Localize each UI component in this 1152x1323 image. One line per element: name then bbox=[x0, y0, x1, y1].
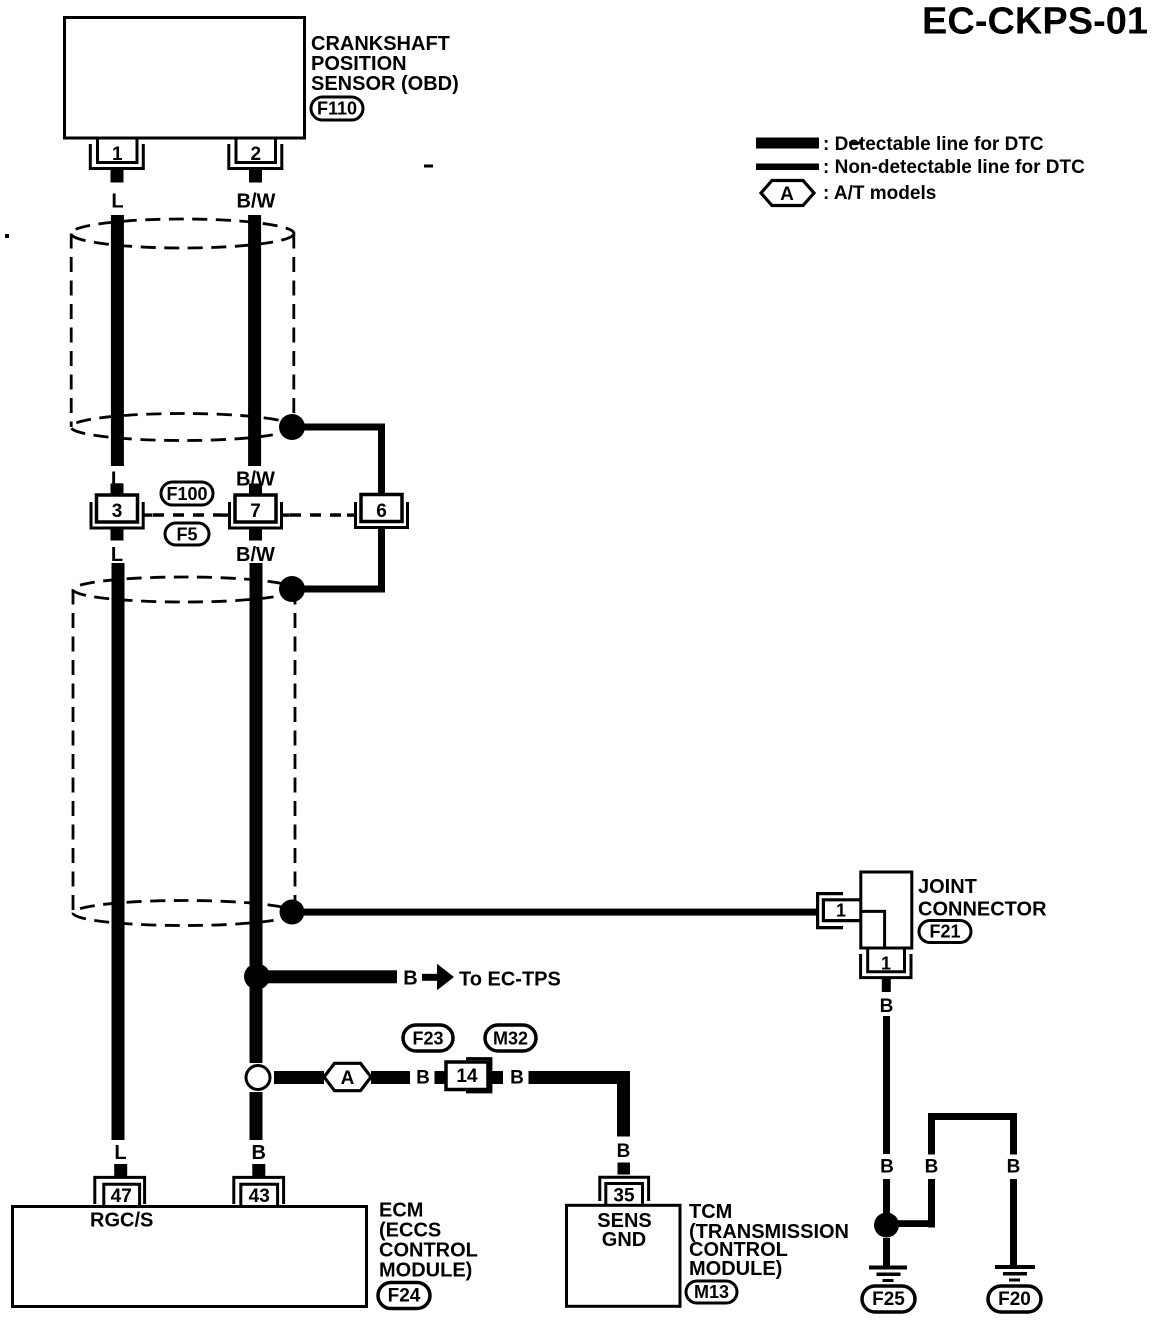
connector 7 bbox=[221, 484, 290, 541]
svg-text:: A/T models: : A/T models bbox=[823, 183, 936, 204]
svg-text:F20: F20 bbox=[998, 1289, 1031, 1310]
label B/W below connector 7 bbox=[236, 544, 275, 566]
wire joint connector down lower bbox=[883, 1179, 890, 1214]
svg-text:To EC-TPS: To EC-TPS bbox=[459, 969, 561, 991]
svg-text:1: 1 bbox=[836, 901, 846, 921]
module ECM box bbox=[13, 1207, 367, 1307]
label L below connector 3 bbox=[111, 544, 123, 566]
label B/W top bbox=[237, 191, 276, 213]
pin 1 of sensor bbox=[90, 138, 143, 183]
wire connector 14 to label B bbox=[488, 1071, 503, 1084]
wire to EC-TPS bbox=[264, 970, 397, 983]
label B/W above connector 7 bbox=[236, 469, 275, 491]
pin 43 of ECM bbox=[234, 1164, 284, 1207]
label B EC-TPS bbox=[403, 968, 417, 990]
speck dash below title bbox=[849, 142, 863, 145]
svg-text:L: L bbox=[111, 544, 123, 566]
svg-text:F24: F24 bbox=[388, 1286, 421, 1307]
connector F20 oval bbox=[988, 1286, 1041, 1312]
svg-text:6: 6 bbox=[376, 501, 387, 522]
wire B/W above pin 43 bbox=[250, 1092, 263, 1140]
svg-text:B: B bbox=[880, 996, 894, 1017]
svg-text:B: B bbox=[1007, 1157, 1021, 1178]
svg-text:B/W: B/W bbox=[237, 191, 276, 213]
wire B to TCM corner bbox=[529, 1071, 631, 1137]
shield cylinder 1 (dashed) bbox=[71, 219, 294, 441]
wire circle to hexagon bbox=[274, 1071, 324, 1084]
connector F23 oval bbox=[403, 1025, 453, 1051]
label B bridge right bbox=[1007, 1157, 1021, 1178]
dashed link 3 to 7 bbox=[153, 513, 221, 516]
wire bridge right lower bbox=[1010, 1179, 1017, 1266]
svg-text:JOINT: JOINT bbox=[918, 876, 977, 898]
legend non-detectable line for DTC bbox=[756, 157, 1085, 178]
arrow to EC-TPS bbox=[422, 964, 454, 990]
svg-text:CONTROL: CONTROL bbox=[379, 1240, 478, 1262]
ground symbol F25 bbox=[869, 1266, 907, 1283]
junction dot ground bbox=[874, 1213, 899, 1238]
svg-text:1: 1 bbox=[881, 954, 891, 974]
wire B/W upper segment bbox=[248, 215, 261, 466]
svg-text:L: L bbox=[114, 1142, 126, 1164]
svg-text:F5: F5 bbox=[176, 525, 197, 545]
svg-text:1: 1 bbox=[112, 144, 123, 165]
label B above pin 43 bbox=[251, 1142, 265, 1164]
label RGC/S bbox=[90, 1210, 153, 1232]
connector M32 oval bbox=[485, 1025, 536, 1051]
svg-text:B: B bbox=[403, 968, 417, 990]
pin 47 of ECM bbox=[95, 1164, 145, 1207]
wire hexagon to label B bbox=[371, 1071, 410, 1084]
svg-text:B: B bbox=[880, 1157, 894, 1178]
label B bridge left bbox=[925, 1157, 939, 1178]
svg-text:43: 43 bbox=[249, 1186, 270, 1207]
speck dot left margin bbox=[5, 234, 9, 238]
svg-text:35: 35 bbox=[613, 1186, 635, 1207]
wire connector 6 to shield2 bbox=[292, 526, 385, 593]
connector F25 oval bbox=[862, 1286, 915, 1312]
svg-text:47: 47 bbox=[111, 1186, 132, 1207]
label B right of connector 14 bbox=[510, 1068, 524, 1089]
wire stub into connector 14 bbox=[435, 1071, 447, 1084]
label L above connector 3 bbox=[111, 469, 123, 491]
svg-text:F23: F23 bbox=[412, 1029, 443, 1049]
connector F24 oval bbox=[378, 1283, 430, 1309]
svg-text:EC-CKPS-01: EC-CKPS-01 bbox=[922, 1, 1148, 43]
svg-text:B: B bbox=[617, 1141, 631, 1162]
label CRANKSHAFT POSITION SENSOR (OBD) bbox=[311, 33, 459, 95]
svg-text:A: A bbox=[341, 1068, 355, 1089]
joint connector pin 1 bottom bbox=[861, 948, 911, 992]
wire junction dot to bridge bbox=[892, 1220, 935, 1227]
svg-text:RGC/S: RGC/S bbox=[90, 1210, 153, 1232]
svg-text:F25: F25 bbox=[872, 1289, 905, 1310]
wire B/W middle segment bbox=[250, 563, 263, 1063]
label L above pin 47 bbox=[114, 1142, 126, 1164]
module TCM box bbox=[567, 1205, 681, 1306]
svg-text:B: B bbox=[416, 1068, 430, 1089]
svg-text:B: B bbox=[925, 1157, 939, 1178]
label L top bbox=[111, 191, 123, 213]
svg-text:L: L bbox=[111, 191, 123, 213]
dashed link 7 to 6 bbox=[290, 513, 347, 516]
speck dash near pin 2 bbox=[424, 165, 433, 168]
label JOINT CONNECTOR bbox=[918, 876, 1047, 921]
junction dot shield2 top bbox=[279, 576, 305, 602]
wire shield2 to joint connector bbox=[292, 909, 818, 916]
svg-text:3: 3 bbox=[112, 501, 123, 522]
label B left of connector 14 bbox=[416, 1068, 430, 1089]
label B on ground wire bbox=[880, 1157, 894, 1178]
svg-text:ECM: ECM bbox=[379, 1200, 423, 1222]
connector F110 oval bbox=[311, 97, 363, 120]
svg-text:GND: GND bbox=[602, 1229, 646, 1251]
connector F5 oval bbox=[165, 523, 209, 545]
connector F21 oval bbox=[919, 921, 971, 943]
connector F100 oval bbox=[161, 482, 213, 505]
svg-text:: Non-detectable line for DTC: : Non-detectable line for DTC bbox=[823, 157, 1085, 178]
svg-text:F21: F21 bbox=[929, 922, 960, 942]
connector 14 bbox=[446, 1059, 491, 1092]
shield cylinder 2 (dashed) bbox=[73, 577, 295, 926]
svg-text:(ECCS: (ECCS bbox=[379, 1220, 441, 1242]
svg-text:MODULE): MODULE) bbox=[379, 1260, 472, 1282]
connector 6 bbox=[347, 495, 408, 528]
label ECM (ECCS CONTROL MODULE) bbox=[379, 1200, 478, 1282]
hexagon A/T bbox=[324, 1063, 371, 1090]
connector M13 oval bbox=[686, 1281, 737, 1303]
label B below joint connector bbox=[880, 996, 894, 1017]
ground symbol F20 bbox=[995, 1265, 1035, 1282]
svg-text:SENSOR (OBD): SENSOR (OBD) bbox=[311, 73, 459, 95]
label To EC-TPS bbox=[459, 969, 561, 991]
svg-text:B: B bbox=[251, 1142, 265, 1164]
junction dot shield2 bottom bbox=[280, 900, 305, 925]
wire bridge left lower bbox=[928, 1179, 935, 1228]
pin 35 of TCM bbox=[600, 1163, 649, 1207]
junction dot B/W to EC-TPS bbox=[244, 964, 270, 990]
svg-text:MODULE): MODULE) bbox=[689, 1258, 782, 1280]
wire junction dot to ground F25 bbox=[883, 1238, 890, 1266]
svg-text:F100: F100 bbox=[166, 484, 207, 504]
label B above pin 35 bbox=[617, 1141, 631, 1162]
module crankshaft position sensor box bbox=[65, 18, 305, 139]
joint connector pin 1 left bbox=[818, 894, 861, 928]
svg-text:F110: F110 bbox=[317, 99, 357, 119]
svg-text:B: B bbox=[510, 1068, 524, 1089]
svg-text:M32: M32 bbox=[493, 1029, 528, 1049]
svg-text:TCM: TCM bbox=[689, 1201, 732, 1223]
svg-text:CONNECTOR: CONNECTOR bbox=[918, 899, 1047, 921]
svg-text:POSITION: POSITION bbox=[311, 53, 407, 75]
svg-text:7: 7 bbox=[250, 501, 261, 522]
legend A/T models hexagon bbox=[761, 181, 936, 206]
junction circle B/W A/T models bbox=[246, 1066, 270, 1090]
svg-text:2: 2 bbox=[251, 144, 262, 165]
wire shield1 to connector 6 bbox=[292, 424, 385, 496]
svg-text:A: A bbox=[780, 184, 794, 205]
title EC-CKPS-01 bbox=[922, 1, 1148, 43]
wire L upper segment bbox=[111, 215, 124, 466]
svg-text:M13: M13 bbox=[694, 1282, 729, 1302]
label TCM (TRANSMISSION CONTROL MODULE) bbox=[689, 1201, 849, 1280]
svg-text:CRANKSHAFT: CRANKSHAFT bbox=[311, 33, 450, 55]
legend detectable line for DTC bbox=[756, 134, 1044, 155]
joint connector body bbox=[861, 872, 912, 948]
pin 2 of sensor bbox=[229, 138, 282, 183]
junction dot shield1 bbox=[279, 414, 305, 440]
connector 3 bbox=[91, 484, 153, 541]
svg-text:14: 14 bbox=[456, 1066, 478, 1087]
wire joint connector down upper bbox=[883, 1016, 890, 1154]
wire L lower segment bbox=[112, 563, 125, 1140]
svg-text:B/W: B/W bbox=[236, 544, 275, 566]
bridge wire top bbox=[928, 1113, 1017, 1155]
